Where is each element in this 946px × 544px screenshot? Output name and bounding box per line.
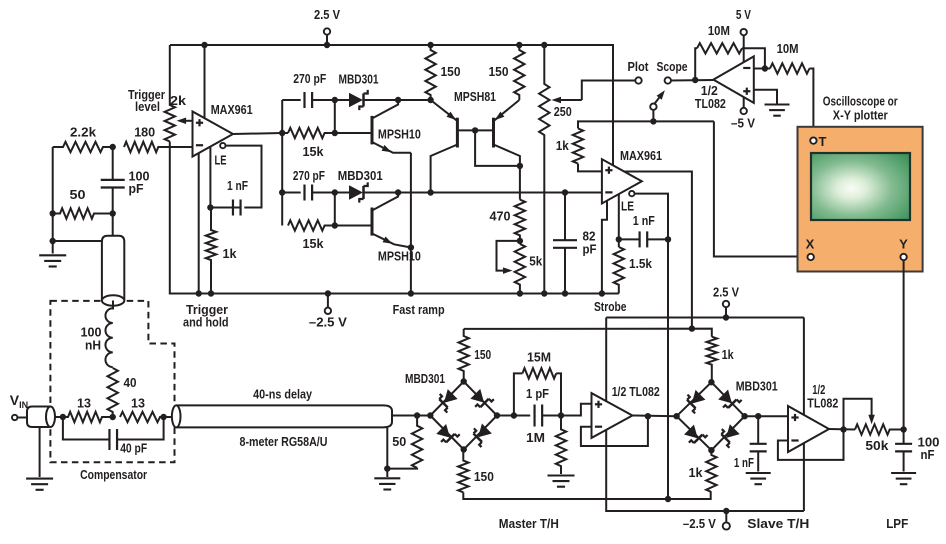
wire power loop left lower [606, 430, 804, 511]
junction dot LPF out [900, 426, 906, 432]
wire row2 cap lead [282, 192, 301, 194]
transistor Q1 emitter [372, 142, 411, 155]
resistor 1k strobe top slave [707, 337, 717, 383]
ground trigger input [39, 255, 66, 266]
svg-text:Y: Y [899, 237, 908, 252]
svg-text:1k: 1k [722, 347, 735, 362]
svg-text:Oscilloscope or: Oscilloscope or [823, 94, 898, 109]
svg-text:X-Y plotter: X-Y plotter [833, 108, 888, 123]
svg-text:Slave T/H: Slave T/H [747, 516, 809, 531]
wire U4 output [632, 415, 676, 418]
svg-text:150: 150 [489, 64, 509, 79]
wire pivot to X node [652, 110, 654, 122]
diode D3 bridge master LL [435, 422, 460, 447]
wire Y to LPF [903, 260, 905, 429]
wire power loop right lower [803, 444, 805, 511]
wire master bridge ring [430, 382, 497, 450]
wire network left vertical [281, 100, 283, 226]
svg-text:TL082: TL082 [807, 396, 838, 411]
wire Q2 base [335, 225, 371, 227]
capacitor 270pF row2 [305, 185, 313, 201]
wire strobe bottom line [463, 492, 710, 499]
svg-text:50: 50 [392, 434, 406, 449]
svg-text:T: T [819, 134, 827, 149]
wire ground stub trigger [52, 241, 54, 254]
op-amp U5 1/2 TL082 slave [788, 406, 829, 452]
terminal 5V [741, 29, 747, 35]
resistor 15k row2 [288, 220, 335, 230]
resistor 10M series [770, 63, 809, 73]
svg-text:Compensator: Compensator [80, 467, 147, 482]
wire feedback to minus [742, 48, 765, 68]
svg-text:MAX961: MAX961 [620, 148, 662, 163]
resistor 15k row1 [288, 128, 335, 138]
svg-text:50: 50 [70, 187, 86, 202]
wire stub center to inductor [112, 301, 114, 310]
capacitor 1nF U1 latch [210, 200, 240, 216]
capacitor 40pF [109, 429, 117, 450]
ground 1nF slave [746, 473, 771, 484]
svg-text:MBD301: MBD301 [338, 168, 383, 183]
svg-text:Plot: Plot [628, 59, 650, 74]
resistor 13 right [120, 412, 164, 422]
svg-text:MPSH10: MPSH10 [378, 249, 421, 264]
svg-text:Scope: Scope [657, 59, 688, 74]
svg-text:270 pF: 270 pF [293, 71, 326, 86]
wire Q1 base [335, 132, 371, 134]
svg-text:MBD301: MBD301 [405, 371, 445, 386]
potentiometer 50k [855, 424, 904, 434]
junction dots row2 [279, 189, 568, 228]
resistor 10M feedback [697, 43, 742, 53]
transistor Q4 MPSH81 base bar [492, 118, 495, 148]
wire row2 diode out to U2 minus [364, 192, 602, 194]
transistor Q1 MPSH10 base bar [371, 116, 374, 144]
svg-text:2k: 2k [170, 93, 187, 108]
junction dots trigger divider [50, 144, 116, 244]
resistor 1M [556, 416, 566, 475]
wire U3 plus to ground [754, 90, 777, 104]
wire 2.5V bus [170, 45, 613, 165]
wire 15M branch down [556, 373, 561, 415]
wire U5 feedback [778, 430, 844, 460]
junction dot U5 output [840, 426, 846, 432]
junction dot U4 output [645, 413, 651, 419]
svg-text:150: 150 [474, 469, 494, 484]
resistor 1k U2 plus [573, 128, 583, 163]
wire 40pF loop [63, 417, 110, 440]
junction dot U1 latch node [207, 204, 213, 210]
svg-text:10M: 10M [777, 41, 799, 56]
wire U1 gnd pin [198, 153, 200, 293]
wire power loop left upper [605, 318, 607, 402]
transistor Q3 MPSH81 base bar [456, 118, 459, 148]
junction dots hold node [511, 412, 565, 418]
svg-text:LPF: LPF [886, 516, 908, 531]
wire U3 minus input [754, 68, 770, 70]
wire U3 feedback [695, 48, 697, 80]
svg-text:15k: 15k [303, 236, 325, 251]
terminal -2.5V slave [723, 522, 730, 529]
terminal -2.5V left [325, 308, 331, 314]
svg-text:15M: 15M [527, 350, 551, 365]
svg-text:pF: pF [129, 181, 144, 196]
resistor 50 [53, 208, 113, 218]
terminal Scope [665, 77, 671, 83]
svg-text:X: X [806, 237, 815, 252]
resistor 13 left [63, 412, 113, 422]
inductor 100nH [105, 308, 112, 367]
wire U2 LE loop [635, 194, 669, 499]
resistor 15M [522, 368, 556, 378]
latch-enable circle U2 [629, 191, 634, 196]
svg-text:15k: 15k [303, 144, 325, 159]
svg-text:40-ns delay: 40-ns delay [253, 387, 313, 402]
pot 250 wiper [552, 97, 582, 104]
ground 1M [548, 476, 575, 487]
wire 1pF to opamp node [542, 404, 591, 416]
pot 5k wiper [497, 241, 520, 274]
wire strobe top line [464, 329, 712, 337]
wire 100pF node into stub [112, 214, 114, 237]
wire power loop top [606, 317, 804, 319]
junction dots delay out [384, 412, 420, 472]
svg-text:150: 150 [474, 347, 491, 362]
capacitor 1nF U2 latch [619, 231, 668, 247]
junction dot X node [650, 118, 656, 124]
wire 2.5V terminal stub [326, 34, 328, 45]
svg-text:1 pF: 1 pF [526, 386, 549, 401]
capacitor 270pF row1 [305, 92, 313, 108]
wire 50 bottom [387, 468, 417, 477]
svg-text:1k: 1k [556, 138, 570, 153]
transistor Q4 collector [494, 145, 520, 200]
wire 40pF right [117, 417, 164, 440]
svg-text:10M: 10M [708, 23, 730, 38]
svg-text:MPSH10: MPSH10 [378, 127, 421, 142]
potentiometer 2k trigger level [165, 45, 175, 142]
junction dot slave hold [755, 413, 761, 419]
svg-text:1k: 1k [689, 465, 704, 480]
junction dots -2.5V rail [196, 290, 606, 296]
ground delay termination [374, 478, 400, 489]
wire U3 to -5V [743, 97, 745, 108]
svg-text:40 pF: 40 pF [120, 441, 147, 456]
svg-text:1 nF: 1 nF [227, 178, 248, 193]
terminal Plot [635, 77, 641, 83]
coax stub tube [102, 236, 124, 301]
terminal T [810, 137, 816, 143]
junction dots input node [60, 414, 167, 420]
junction dots power loop [723, 314, 730, 514]
wire gnd dot to stub shield [53, 240, 102, 242]
latch-enable circle U1 [220, 143, 225, 148]
resistor 150 right [514, 45, 524, 100]
transistor Q2 emitter [372, 234, 411, 248]
svg-text:470: 470 [490, 209, 511, 224]
capacitor 100nF [895, 430, 912, 472]
svg-text:Strobe: Strobe [594, 299, 627, 314]
svg-text:270 pF: 270 pF [293, 168, 325, 183]
wire row2 cap to diode node [312, 192, 350, 194]
svg-text:LE: LE [215, 153, 227, 168]
wire row1 cap to diode node [312, 99, 350, 101]
oscilloscope screen [811, 153, 910, 220]
capacitor 1nF slave [750, 416, 767, 471]
wire row1 node vertical [334, 100, 336, 133]
wire row2 node vertical [334, 193, 336, 226]
junction dot emitters [408, 244, 414, 250]
junction dot U3 minus [762, 65, 768, 71]
switch pivot [650, 104, 656, 110]
input coax connector [27, 407, 55, 428]
svg-text:MBD301: MBD301 [736, 379, 778, 394]
svg-text:1M: 1M [526, 430, 545, 445]
wire X to oscilloscope [714, 121, 808, 256]
wire U5 output [829, 428, 855, 431]
terminal -5V [741, 108, 747, 114]
junction dots MPSH81 [472, 127, 523, 169]
svg-text:180: 180 [134, 125, 155, 140]
wire slave bridge ring [677, 382, 745, 450]
svg-text:MBD301: MBD301 [339, 72, 379, 87]
diode MBD301 row2 [349, 182, 368, 202]
diode D7 bridge slave LL [682, 423, 707, 448]
wire 15M branch up [514, 373, 523, 415]
junction dot 470-5k [517, 238, 523, 244]
capacitor 1pF [535, 405, 543, 427]
wire -2.5V stub [327, 294, 329, 308]
svg-text:1/2 TL082: 1/2 TL082 [612, 384, 660, 399]
wire U2 output [624, 172, 692, 329]
wire U2 gnd pin [602, 201, 607, 294]
resistor 2.2k [53, 142, 113, 152]
wire U1 LE loop [226, 146, 262, 208]
svg-text:–2.5 V: –2.5 V [683, 516, 716, 531]
junction dots slave bridge [673, 379, 747, 453]
resistor 50 termination [412, 416, 422, 468]
svg-text:TL082: TL082 [695, 96, 726, 111]
potentiometer 250 [539, 45, 549, 294]
wire U2 latch pin [618, 194, 620, 247]
svg-text:1 nF: 1 nF [734, 455, 754, 470]
op-amp U3 1/2 TL082 [713, 56, 753, 103]
svg-text:MPSH81: MPSH81 [454, 89, 496, 104]
coax stub bottom ellipse [102, 295, 124, 305]
svg-text:1k: 1k [223, 246, 238, 261]
svg-text:nH: nH [85, 338, 101, 353]
terminal Y [900, 254, 906, 260]
wire slave bridge out [745, 415, 788, 417]
junction dots U2 latch [616, 236, 672, 242]
transistor Q2 collector [372, 193, 398, 211]
diode D6 bridge slave UR [717, 388, 742, 413]
terminal VIN [12, 415, 17, 420]
resistor 150 left [425, 45, 435, 100]
wire row1 cap lead [282, 99, 301, 101]
capacitor 100pF [101, 147, 125, 214]
wire emitters to -2.5V rail [410, 153, 412, 294]
wire row1 diode out [364, 99, 431, 101]
wire comparator U1 V+ from bus [204, 45, 206, 118]
wire 5V to U3 [743, 35, 745, 62]
svg-text:2.2k: 2.2k [70, 125, 97, 140]
svg-text:level: level [135, 99, 160, 114]
diode D2 bridge master UR [469, 387, 494, 412]
svg-text:Master T/H: Master T/H [499, 516, 559, 531]
wire base tie to collector Q4 [475, 130, 520, 166]
pot 2k wiper arrow [177, 118, 193, 125]
wire connector gnd [39, 427, 41, 477]
wire 2k pot bottom to -2.5V rail [170, 142, 619, 294]
diode D8 bridge slave LR [716, 423, 741, 448]
ground U3 plus [765, 105, 790, 116]
ground 100nF [891, 473, 916, 484]
terminal 2.5V supply [324, 28, 330, 34]
wire 1k top to X node [578, 121, 714, 128]
op-amp U2 MAX961 comparator [602, 159, 642, 203]
wire power loop right upper [803, 318, 805, 415]
wire left branch vertical [52, 147, 54, 241]
svg-text:MAX961: MAX961 [211, 102, 253, 117]
svg-text:8-meter RG58A/U: 8-meter RG58A/U [240, 434, 328, 449]
svg-text:150: 150 [441, 64, 461, 79]
wire 250 wiper to Plot [582, 81, 636, 101]
diode D5 bridge slave UL [682, 388, 707, 413]
wire 13 to delay line [164, 416, 173, 418]
ground input connector [26, 479, 53, 490]
wire U1 latch pin to 1nF [209, 147, 211, 208]
wire base tie [457, 129, 493, 131]
capacitor 82pF [553, 193, 577, 294]
resistor 1k strobe bottom slave [706, 450, 716, 492]
wire VIN to connector [17, 417, 28, 419]
wire U1 output row1 [233, 133, 288, 134]
diode MBD301 row1 [349, 90, 368, 110]
resistor 150 strobe bottom [458, 450, 468, 493]
terminal 2.5V slave [723, 301, 729, 307]
svg-text:5 V: 5 V [736, 7, 751, 22]
wire 2.5V slave stub [725, 307, 727, 317]
svg-text:13: 13 [131, 396, 145, 411]
svg-text:250: 250 [554, 104, 572, 119]
svg-text:nF: nF [921, 447, 935, 462]
svg-text:2.5 V: 2.5 V [713, 285, 739, 300]
dashed compensator box [50, 301, 174, 462]
wire delay shield gnd [386, 427, 388, 468]
junction dots 2.5V bus [201, 42, 547, 48]
svg-text:–2.5 V: –2.5 V [309, 315, 347, 330]
junction dot U3 output [692, 77, 698, 83]
delay line tube [172, 405, 392, 427]
junction dots master bridge [427, 378, 500, 452]
transistor Q3 collector [431, 145, 458, 193]
svg-text:2.5 V: 2.5 V [314, 7, 340, 22]
transistor Q3 emitter [431, 100, 458, 123]
junction dots strobe lines [665, 325, 695, 502]
resistor 470 [515, 200, 525, 241]
wire Scope to U3 output [671, 79, 714, 82]
svg-text:LE: LE [621, 199, 634, 214]
wire 1k bottom to U2 plus [578, 164, 602, 172]
pot 50k wiper [844, 399, 875, 430]
diode D4 bridge master LR [468, 422, 493, 447]
svg-text:and hold: and hold [183, 315, 229, 330]
transistor Q2 MPSH10 base bar [371, 208, 374, 236]
svg-text:50k: 50k [865, 438, 889, 453]
wire connector to 13 [55, 416, 68, 418]
svg-text:5k: 5k [529, 254, 543, 269]
svg-text:1 nF: 1 nF [633, 213, 655, 228]
resistor 1.5k [614, 247, 624, 294]
wire U4 feedback [581, 416, 648, 446]
resistor 150 strobe top [459, 329, 469, 382]
svg-text:Fast ramp: Fast ramp [393, 302, 445, 317]
diode D1 bridge master UL [434, 388, 459, 413]
wire -2.5V slave stub [725, 511, 727, 522]
switch arm arrow [655, 88, 668, 103]
svg-text:pF: pF [583, 242, 597, 257]
terminal X [808, 254, 814, 260]
potentiometer 5k [515, 244, 525, 294]
wire delay out [392, 415, 430, 417]
resistor 1k U1 latch [206, 208, 216, 294]
svg-text:13: 13 [77, 396, 91, 411]
wire 10M to T [809, 69, 813, 138]
svg-text:–5 V: –5 V [731, 116, 755, 131]
resistor 40 [108, 368, 118, 417]
op-amp U4 1/2 TL082 master [592, 393, 633, 438]
transistor Q1 collector [372, 100, 398, 119]
wire bridge to hold node [497, 415, 530, 417]
resistor 180 [124, 142, 193, 152]
junction dots row1 [279, 97, 434, 136]
oscilloscope box [798, 127, 923, 272]
op-amp U1 MAX961 comparator [193, 112, 234, 157]
svg-text:1.5k: 1.5k [629, 256, 653, 271]
transistor Q4 emitter [493, 100, 519, 123]
svg-text:40: 40 [124, 375, 137, 390]
